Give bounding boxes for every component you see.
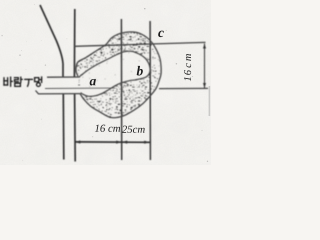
dimension arrowheads — [75, 140, 80, 143]
wire: top horizontal extension line — [75, 42, 206, 46]
wire: bottom dimension line — [75, 141, 150, 143]
wire: right dimension line (16cm vertical) — [204, 44, 206, 89]
scan artifact right edge — [209, 86, 211, 116]
wire: air slot bottom cap — [36, 91, 81, 94]
wire: right lower extension line — [159, 87, 208, 89]
wire: chimney outer wall upper (diagonal) — [40, 5, 63, 77]
label: korean air-hole text — [4, 77, 42, 87]
value label 16cm right (vertical) — [184, 54, 191, 81]
wire: chimney outer wall lower — [62, 94, 65, 160]
node a — [90, 79, 96, 86]
wire: air slot top cap — [47, 76, 80, 78]
value label 16 cm bottom — [95, 125, 120, 132]
value label 25cm bottom — [122, 126, 145, 133]
paper specks — [1, 4, 208, 162]
wire: leader line to point a — [45, 87, 115, 89]
blob inner hole boundary — [79, 51, 150, 96]
wire: chimney inner wall upper — [73, 9, 75, 77]
wire: chimney inner wall lower — [74, 94, 77, 162]
node c — [158, 31, 164, 37]
wire: vertical extension line through blob centre-left — [120, 19, 122, 160]
blob outer boundary — [76, 32, 161, 118]
paper background — [0, 0, 211, 165]
stipple texture — [76, 32, 160, 118]
wire: vertical extension line at blob right — [149, 21, 151, 160]
scanned textbook diagram: forge cross-section with air hole — [0, 0, 211, 165]
node b — [137, 66, 143, 76]
